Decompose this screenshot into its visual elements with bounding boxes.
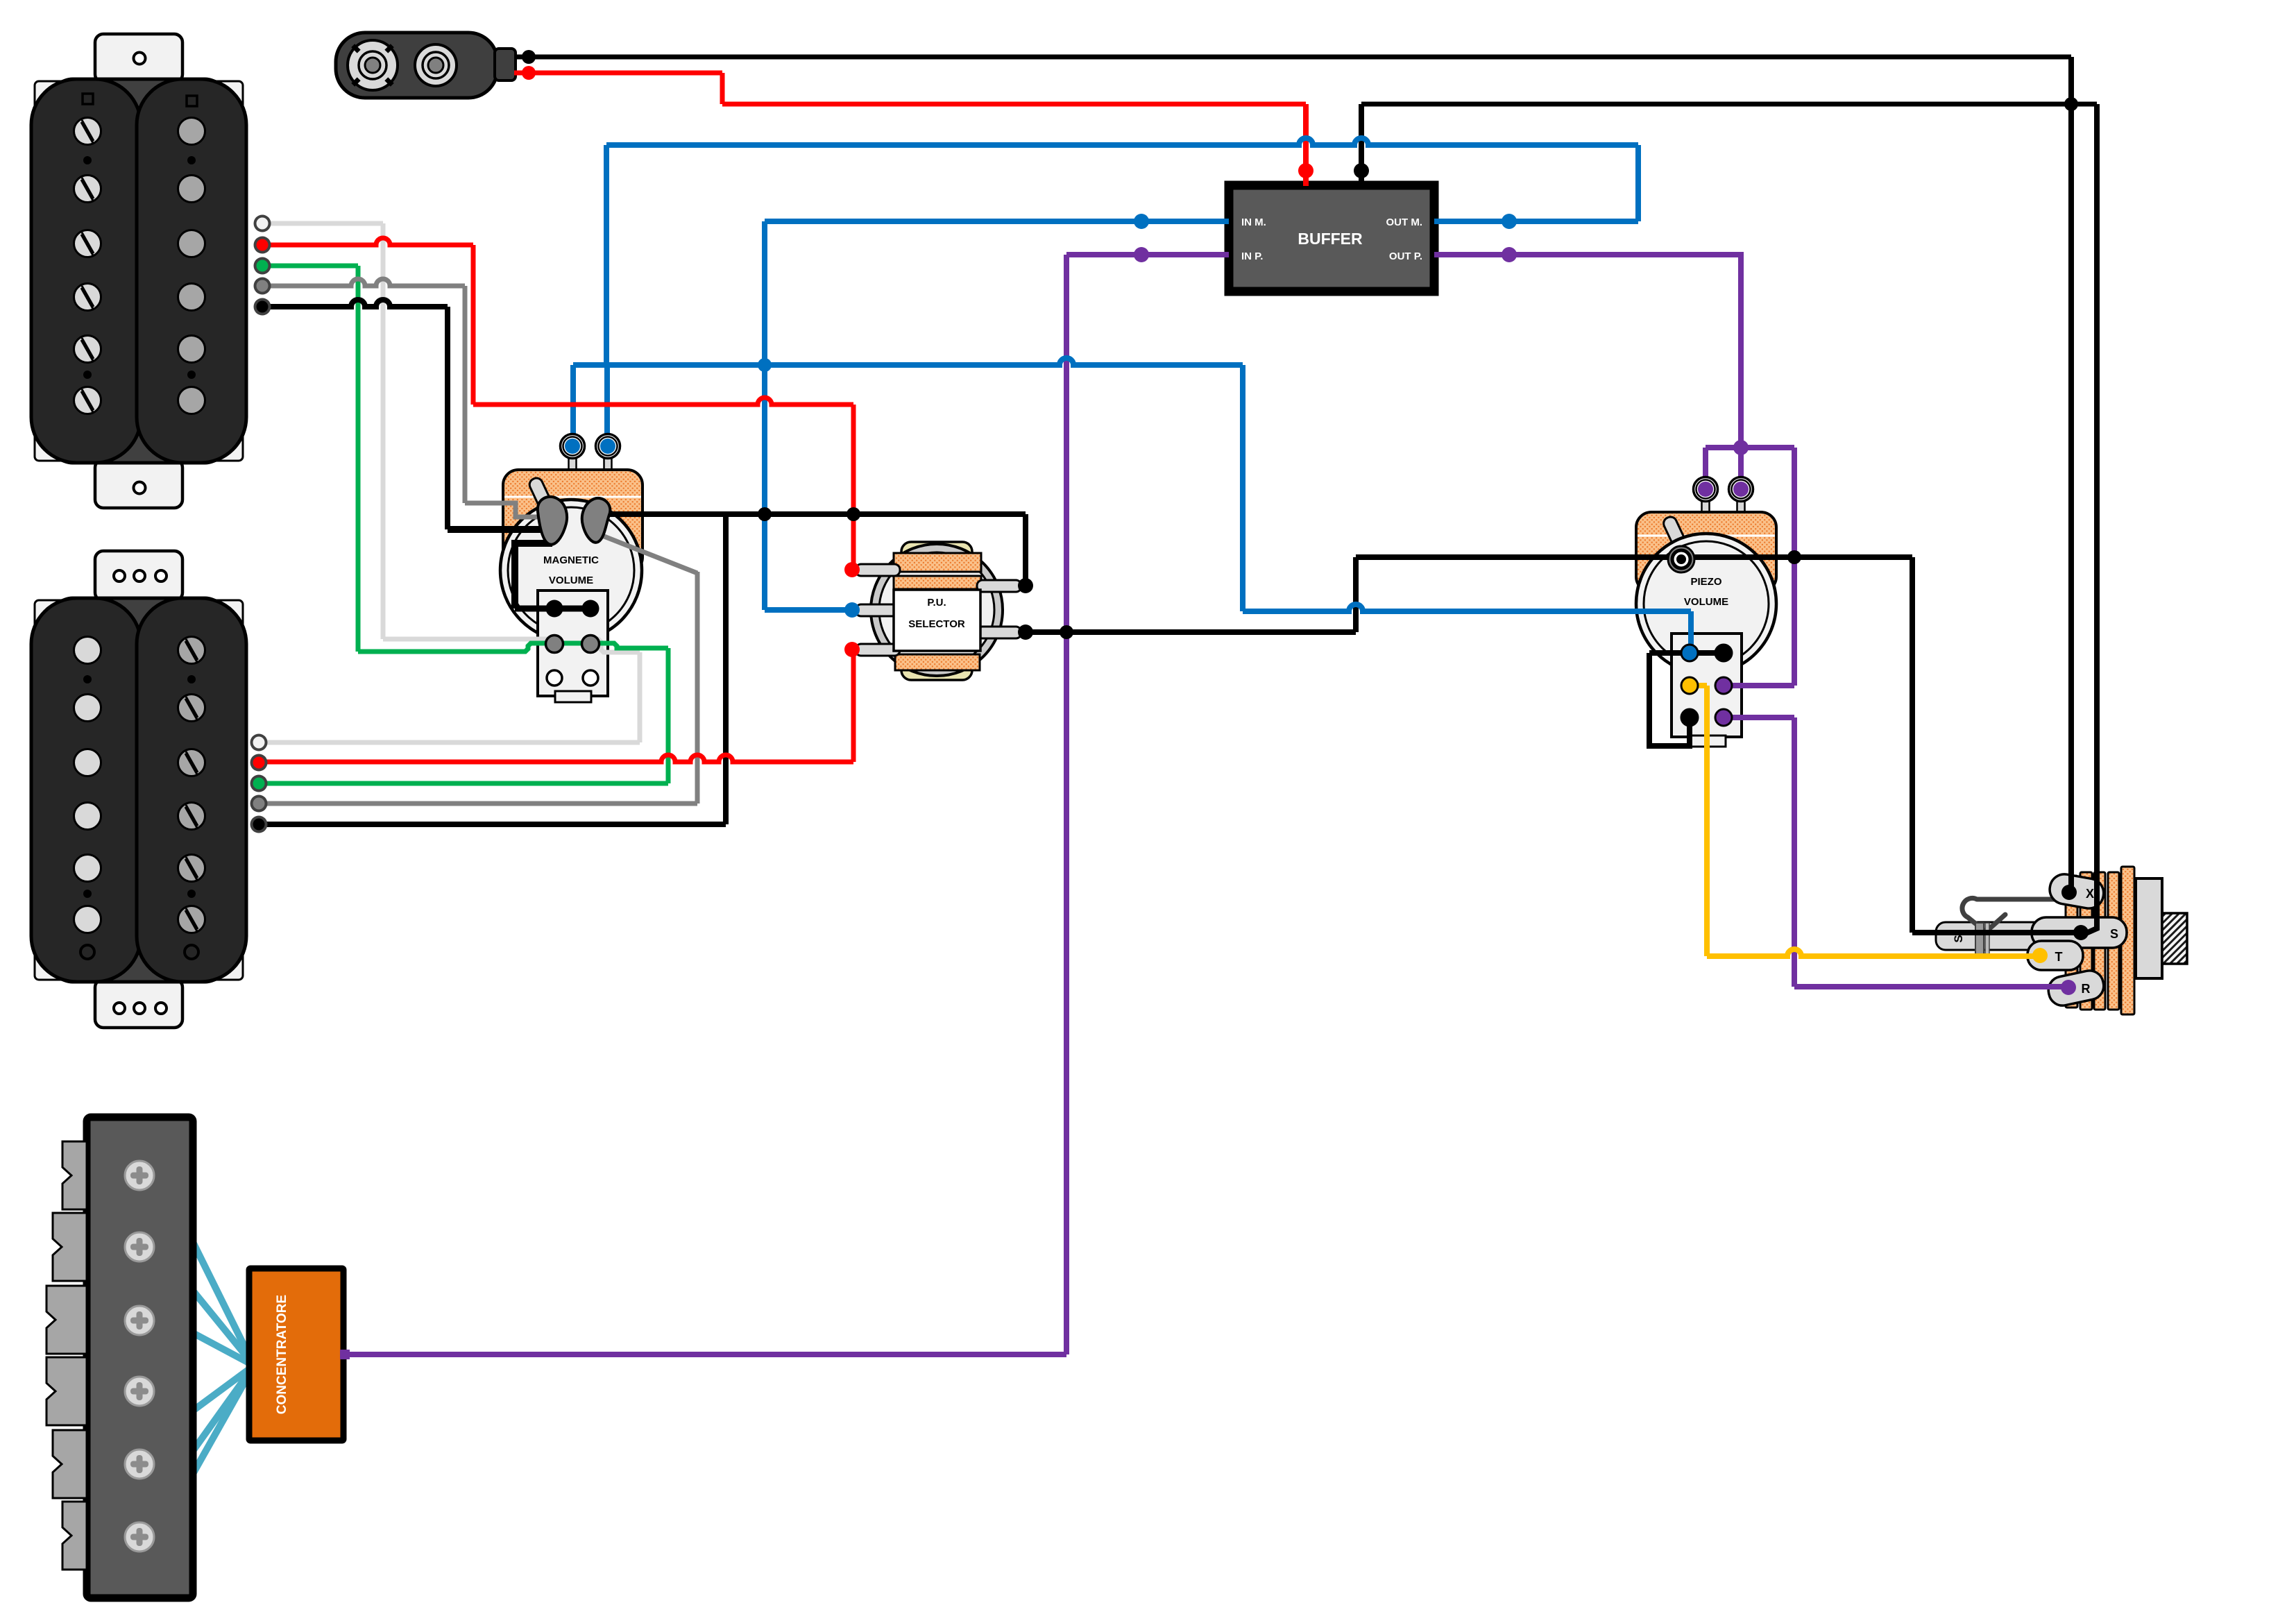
svg-text:BUFFER: BUFFER (1298, 230, 1363, 248)
svg-text:P.U.: P.U. (927, 597, 946, 609)
svg-text:IN P.: IN P. (1241, 250, 1263, 262)
svg-text:X: X (2086, 887, 2094, 901)
svg-text:VOLUME: VOLUME (549, 575, 593, 586)
svg-text:R: R (2082, 982, 2091, 996)
svg-text:IN M.: IN M. (1241, 216, 1266, 228)
svg-text:CONCENTRATORE: CONCENTRATORE (275, 1295, 289, 1414)
svg-text:S: S (2110, 927, 2118, 941)
svg-text:PIEZO: PIEZO (1690, 576, 1721, 588)
svg-text:OUT M.: OUT M. (1386, 216, 1423, 228)
svg-text:SELECTOR: SELECTOR (908, 618, 965, 630)
svg-text:OUT P.: OUT P. (1389, 250, 1422, 262)
svg-text:S: S (1952, 935, 1965, 942)
svg-text:MAGNETIC: MAGNETIC (543, 554, 599, 566)
svg-text:VOLUME: VOLUME (1684, 596, 1728, 608)
svg-text:T: T (2055, 950, 2063, 964)
